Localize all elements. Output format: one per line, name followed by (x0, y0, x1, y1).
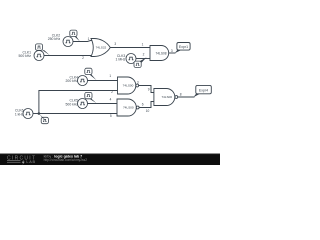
svg-text:74LS00: 74LS00 (123, 106, 134, 110)
wire CLK4 to NAND1 pin1 (88, 80, 118, 82)
wire CLK5 to NAND2 pin4 (88, 103, 117, 105)
svg-text:3: 3 (114, 42, 116, 46)
flag Expr1 (175, 43, 190, 54)
svg-text:74LS00: 74LS00 (161, 95, 172, 99)
nand-gate U5 74LS00 (117, 99, 139, 116)
nand-gate U4 74LS00 (154, 89, 178, 106)
svg-text:500 kHz: 500 kHz (19, 54, 32, 58)
svg-text:2: 2 (111, 90, 113, 94)
svg-text:5: 5 (110, 114, 112, 118)
svg-text:2: 2 (82, 56, 84, 60)
svg-text:1: 1 (142, 42, 144, 46)
wire junction up to NAND1 pin2 (39, 91, 118, 114)
svg-text:Expr1: Expr1 (179, 45, 188, 49)
svg-text:2: 2 (143, 53, 145, 57)
wire CLK3 to AND pin2 (136, 58, 150, 60)
svg-text:3: 3 (137, 80, 139, 84)
svg-text:1 kHz: 1 kHz (15, 112, 24, 116)
svg-text:4: 4 (110, 97, 112, 101)
svg-text:1 MHz: 1 MHz (116, 58, 126, 62)
clock source CLK6 1 kHz (15, 109, 49, 124)
svg-text:74LS32: 74LS32 (96, 45, 107, 49)
svg-text:10: 10 (146, 109, 150, 113)
wire CLK6 to junction (33, 113, 39, 115)
footer bar (0, 154, 220, 165)
flag Expr2 (193, 85, 211, 97)
wire CLK2 to OR pin1 (73, 41, 93, 42)
svg-text:200 kHz: 200 kHz (66, 79, 79, 83)
clock source CLK3 1 MHz (116, 54, 147, 68)
clock source CLK1 500 kHz (19, 44, 50, 61)
svg-text:6: 6 (142, 103, 144, 107)
svg-text:74LS08: 74LS08 (156, 51, 167, 55)
svg-text:Expr4: Expr4 (199, 88, 208, 92)
svg-text:3: 3 (171, 49, 173, 53)
wire junction to NAND2 pin5 (39, 113, 117, 115)
clock source CLK2 250 kHz (48, 30, 80, 46)
svg-text:LAB: LAB (26, 160, 35, 164)
svg-text:9: 9 (148, 88, 150, 92)
wire NAND3 output to flag Expr2 (178, 96, 194, 98)
footer logo CIRCUIT LAB (7, 155, 35, 164)
nand-gate U3 74LS00 (118, 77, 139, 94)
wire OR output to AND pin1 (110, 47, 150, 49)
wire NAND2 output to NAND3 pin10 (139, 102, 154, 108)
svg-text:http://circuitlab.com/c/cmy2ss: http://circuitlab.com/c/cmy2ss2 (44, 158, 88, 162)
svg-text:500 kHz: 500 kHz (66, 102, 79, 106)
wire NAND1 output to NAND3 pin9 (139, 86, 154, 93)
svg-text:1: 1 (109, 74, 111, 78)
or-gate U1 74LS32 (91, 39, 110, 57)
node junction at CLK6 (38, 112, 41, 115)
wire AND output to flag Expr1 (169, 52, 175, 54)
svg-text:250 kHz: 250 kHz (48, 37, 61, 41)
svg-text:1: 1 (88, 37, 90, 41)
clock source CLK4 200 kHz (66, 68, 97, 85)
wire CLK1 to OR pin2 (44, 55, 94, 57)
and-gate U2 74LS08 (150, 46, 169, 61)
svg-text:74LS00: 74LS00 (123, 84, 134, 88)
svg-text:8: 8 (180, 93, 182, 97)
clock source CLK5 500 kHz (66, 92, 97, 108)
